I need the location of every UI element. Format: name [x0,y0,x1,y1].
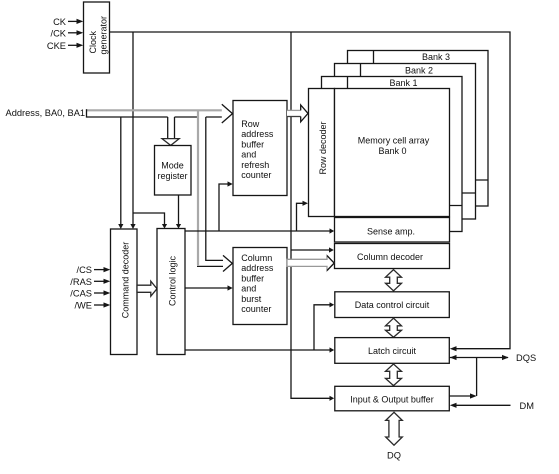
svg-text:Bank 2: Bank 2 [405,65,433,75]
svg-text:Clock: Clock [88,30,98,53]
junction: arrowhead into control logic from mode register [176,224,181,229]
wire: wide arrow row address buffer to row decoder [287,105,308,122]
svg-text:/CS: /CS [77,265,93,275]
svg-text:Command decoder: Command decoder [121,242,131,319]
svg-text:Bank 3: Bank 3 [422,52,450,62]
svg-text:Latch circuit: Latch circuit [368,346,417,356]
svg-text:Row: Row [241,119,260,129]
svg-text:Bank 1: Bank 1 [389,78,417,88]
junction: arrowhead into input/output buffer from clock branch [330,396,335,401]
block mode register [155,146,192,196]
wire: control logic branch up to row decoder [297,201,309,231]
svg-text:burst: burst [241,294,262,304]
block clock generator [84,2,110,73]
svg-text:generator: generator [98,16,108,55]
svg-text:Address, BA0, BA1: Address, BA0, BA1 [6,108,86,118]
node /CAS input [70,289,110,299]
svg-text:address: address [241,263,274,273]
svg-text:buffer: buffer [241,139,264,149]
svg-text:refresh: refresh [241,160,269,170]
wire: clock tee over to control logic [133,213,165,225]
block row decoder [309,89,335,217]
svg-text:/WE: /WE [74,301,92,311]
node /CS input [77,265,111,275]
svg-text:/CAS: /CAS [70,289,92,299]
block latch circuit [335,338,450,364]
wire: wide arrow from address bus down into mode register [162,117,179,145]
wire: clock line from clock generator across top and down right side to latch circuit [110,32,511,349]
svg-text:DM: DM [520,401,534,411]
svg-text:Column decoder: Column decoder [357,252,423,262]
junction: arrowhead into control logic from clock tee [162,224,167,229]
block sense amp [335,218,450,243]
block column address buffer and burst counter [233,248,287,325]
svg-text:Data control circuit: Data control circuit [355,300,430,310]
node DQ bidirectional port with double arrow [386,412,403,460]
block row address buffer and refresh counter [233,101,287,196]
junction: arrowhead into command decoder from address branch [118,224,123,229]
node /WE input [74,301,110,311]
svg-text:DQS: DQS [516,353,536,363]
block memory cell array bank 0 [335,89,450,217]
wire: control logic branch up to row address buffer [219,181,233,231]
wire: wide arrow command decoder to control logic [137,281,157,296]
svg-text:counter: counter [241,304,271,314]
wire: address branch down into command decoder [120,117,122,226]
svg-text:DQ: DQ [387,451,401,461]
block bank 0 white backdrop [308,88,450,244]
svg-text:CK: CK [53,17,67,27]
wire: wide arrow column address buffer to column decoder [287,256,334,271]
svg-text:counter: counter [241,170,271,180]
block control logic [157,229,185,355]
block command decoder [111,229,138,355]
wire: double arrow column decoder to data control circuit [386,270,402,291]
svg-text:Row decoder: Row decoder [318,121,328,174]
wire: input/output buffer up to DQS line [450,358,477,399]
node /RAS input [70,277,110,287]
wire: control logic to latch circuit [185,347,334,352]
wire: control logic to column address buffer [185,285,233,290]
block bank 2 [335,64,476,220]
svg-text:register: register [157,171,187,181]
svg-text:Bank 0: Bank 0 [378,146,406,156]
wire: double arrow latch circuit to input/output buffer [386,364,402,386]
svg-text:/CK: /CK [51,28,67,38]
svg-text:and: and [241,150,256,160]
svg-text:Memory cell array: Memory cell array [358,136,430,146]
node DM input port [450,401,534,411]
svg-text:and: and [241,284,256,294]
svg-text:Mode: Mode [161,161,184,171]
junction: arrowhead into command decoder from clock branch [130,224,135,229]
node DQS bidirectional port [450,353,537,363]
svg-text:buffer: buffer [241,273,264,283]
block bank 1 [322,77,463,232]
svg-text:Input & Output buffer: Input & Output buffer [350,395,433,405]
wire: mode register output down into control logic [178,195,180,225]
junction: arrowhead into latch circuit from clock right-side drop [450,346,457,351]
block column decoder [335,244,450,269]
node /CK input [51,28,84,38]
svg-text:address: address [241,129,274,139]
wire: branch up to data control circuit [314,302,334,350]
svg-text:/RAS: /RAS [70,277,92,287]
wire: control logic to sense amp [185,228,334,233]
block data control circuit [335,292,450,318]
junction: arrowhead into column decoder from clock branch [329,247,334,252]
svg-text:Sense amp.: Sense amp. [367,227,415,237]
wire: branch from clock drop to column decoder [291,249,330,251]
wire: clock branch down left side to input/output buffer [291,32,331,398]
wire: clock branch down into command decoder [132,32,134,226]
wire: wide address bus branch down and into column address buffer [197,111,232,272]
wire: address bus wide arrow into row address buffer [87,104,233,123]
node CK input [53,17,83,27]
node CKE input [47,41,83,51]
svg-text:CKE: CKE [47,41,66,51]
block bank 3 [348,51,489,207]
block input and output buffer [335,386,450,411]
wire: double arrow data control circuit to latch circuit [386,318,402,337]
svg-text:Control logic: Control logic [167,255,177,306]
svg-text:Column: Column [241,253,272,263]
